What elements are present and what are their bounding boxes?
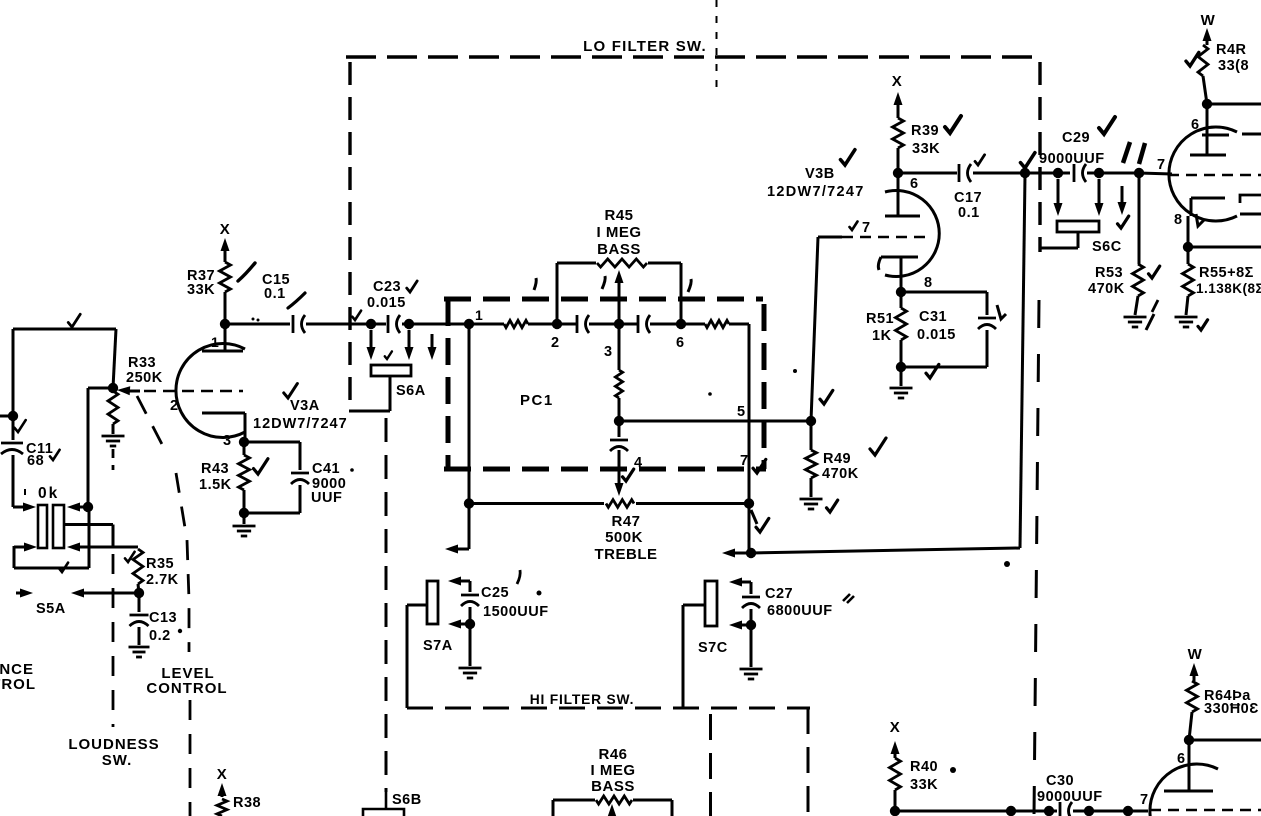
dotted leader line at top <box>716 0 718 92</box>
switch S6A arrows <box>367 330 437 360</box>
V3A grid dashes pin 2 <box>144 391 243 414</box>
resistor R55 <box>1183 247 1194 315</box>
svg-text:S6A: S6A <box>396 383 426 399</box>
check mark C17 <box>975 155 985 165</box>
ground R49 <box>800 499 838 512</box>
switch S6C arrows <box>1054 179 1127 216</box>
label R33 <box>126 355 163 386</box>
label S7C <box>698 640 728 656</box>
dashed linkage loudness sw <box>112 449 115 727</box>
wire plate bottom-right <box>1189 739 1261 742</box>
S5A outer bracket <box>14 508 89 568</box>
capacitor C31 <box>901 292 996 367</box>
svg-text:R33: R33 <box>128 355 156 371</box>
svg-text:8: 8 <box>1174 212 1183 228</box>
check mark pin4 <box>623 469 634 481</box>
check mark top-left wire <box>68 314 80 327</box>
switch S5A bar 2 <box>53 505 64 548</box>
dashed box LO FILTER SW top edge <box>346 55 1040 58</box>
switch S6A <box>349 365 411 411</box>
svg-text:I MEG: I MEG <box>590 762 635 779</box>
svg-text:R46: R46 <box>598 746 627 763</box>
svg-text:S5A: S5A <box>36 601 66 617</box>
PC1 capacitor 3-4 <box>610 421 643 471</box>
svg-text:C31: C31 <box>919 309 947 325</box>
svg-text:R4R: R4R <box>1216 42 1247 58</box>
check mark C15 <box>252 293 306 322</box>
capacitor C25 <box>448 577 479 630</box>
check mark R37 <box>238 263 255 281</box>
svg-text:7: 7 <box>740 453 749 469</box>
V4A plate pin 6 <box>1190 104 1226 155</box>
svg-text:C25: C25 <box>481 585 509 601</box>
capacitor C11 <box>1 416 53 503</box>
R46 wiper arrow <box>608 804 617 816</box>
label R37 <box>187 268 215 298</box>
V4A cathode pin 8 <box>1174 198 1225 247</box>
svg-text:2: 2 <box>551 335 560 351</box>
resistor R49 <box>806 421 817 497</box>
svg-text:7: 7 <box>1140 792 1149 808</box>
svg-text:1: 1 <box>211 334 219 350</box>
V3B plate pin 6 <box>885 168 920 216</box>
label R55 <box>1196 265 1261 296</box>
V3A plate pin 1 <box>202 324 243 351</box>
wire bottom right run <box>890 806 1148 816</box>
potentiometer R45 <box>557 259 681 324</box>
label R64 <box>1204 688 1259 717</box>
resistor R39 with X arrow <box>892 73 904 173</box>
svg-text:33K: 33K <box>910 777 938 793</box>
label C27 <box>765 586 833 619</box>
check mark S5A <box>59 563 68 572</box>
label S5A <box>36 601 66 617</box>
resistor R40 with X arrow <box>890 719 901 811</box>
svg-text:I MEG: I MEG <box>596 224 641 241</box>
svg-text:X: X <box>892 73 903 90</box>
check mark near row5 node <box>820 390 833 404</box>
wire into S5A bar1 <box>13 503 36 512</box>
svg-text:BASS: BASS <box>597 241 641 258</box>
svg-text:33K: 33K <box>187 282 215 298</box>
svg-text:W: W <box>1201 12 1216 29</box>
svg-text:S7C: S7C <box>698 640 728 656</box>
svg-text:R47: R47 <box>611 513 640 530</box>
label V3A <box>253 398 348 432</box>
PC1 capacitor a <box>577 315 638 333</box>
svg-text:C30: C30 <box>1046 773 1074 789</box>
svg-text:4: 4 <box>634 455 643 471</box>
capacitor C17 <box>898 164 1025 221</box>
svg-text:C29: C29 <box>1062 130 1090 146</box>
wiper arrow R33 (grid wire) <box>117 386 140 395</box>
label R51 <box>866 311 894 344</box>
svg-text:7: 7 <box>862 220 871 236</box>
wire plate top-right <box>1202 99 1261 109</box>
svg-text:TROL: TROL <box>0 676 36 693</box>
label C41 <box>311 461 354 506</box>
ground R51 <box>890 367 913 398</box>
dashed linkage level control <box>137 396 190 816</box>
svg-text:S7A: S7A <box>423 638 453 654</box>
svg-text:TREBLE: TREBLE <box>595 546 658 563</box>
stray dots <box>537 369 1011 773</box>
label R49 <box>822 451 859 482</box>
capacitor C15 <box>262 272 305 333</box>
switch S6B <box>363 792 422 816</box>
capacitor C27 <box>729 578 760 631</box>
label S7A <box>423 638 453 654</box>
label C25 <box>481 585 549 620</box>
check mark R39 <box>945 116 961 133</box>
svg-text:PC1: PC1 <box>520 392 554 409</box>
svg-text:R38: R38 <box>233 795 261 811</box>
S5A inner row A <box>64 525 113 548</box>
V4B plate pin 6 <box>1164 735 1213 791</box>
PC1 series resistor a <box>469 320 577 327</box>
wire V3B pin7 to row5 <box>806 237 842 426</box>
label LEVEL CONTROL <box>146 665 227 697</box>
main wire left section <box>220 319 469 329</box>
R47 wiper arrow <box>615 450 624 496</box>
check marks near pin7 <box>751 459 769 532</box>
ground C13 <box>129 647 150 657</box>
S5A inner row B <box>67 543 138 552</box>
check mark V3A <box>284 384 298 398</box>
main wire right section <box>1020 168 1172 178</box>
svg-text:7: 7 <box>1157 157 1166 173</box>
ground R33 <box>102 436 125 446</box>
svg-text:68: 68 <box>27 453 44 469</box>
switch S5A bar 1 <box>38 505 47 548</box>
resistor R37 with X arrow <box>220 221 231 324</box>
svg-text:C27: C27 <box>765 586 793 602</box>
pen strokes near pin 7 <box>1123 142 1145 164</box>
resistor R48 with W arrow <box>1198 12 1216 104</box>
svg-text:6: 6 <box>1177 751 1186 767</box>
label pin 7 bottom <box>1140 792 1149 808</box>
check mark V3B <box>841 150 855 165</box>
svg-text:X: X <box>220 221 231 238</box>
label R39 <box>911 123 940 157</box>
PC1 resistor 3-5 <box>615 324 622 421</box>
svg-text:470K: 470K <box>1088 281 1125 297</box>
svg-text:W: W <box>1188 646 1203 663</box>
label R43 <box>199 461 232 493</box>
label V3B <box>767 166 865 200</box>
potentiometer R46 <box>553 796 672 816</box>
svg-text:6: 6 <box>676 335 685 351</box>
svg-text:HI FILTER SW.: HI FILTER SW. <box>530 692 634 707</box>
resistor R43 <box>239 437 250 518</box>
svg-text:SW.: SW. <box>102 752 133 769</box>
check mark at node <box>1021 153 1035 168</box>
check mark R48 <box>1186 52 1199 66</box>
dashed box HI FILTER SW <box>407 708 810 816</box>
resistor R51 <box>896 287 907 372</box>
S5A wire arrows row1 <box>67 503 88 512</box>
tube V3A envelope <box>176 344 245 438</box>
PC1 pin 2 node <box>551 319 562 351</box>
svg-text:R49: R49 <box>823 451 851 467</box>
wire R33 wiper to S5A <box>83 388 113 512</box>
svg-text:R35: R35 <box>146 556 174 572</box>
svg-text:2.7K: 2.7K <box>146 572 179 588</box>
V3B grid pin 7 <box>842 220 928 237</box>
label R46 <box>590 746 635 795</box>
capacitor C41 <box>244 442 309 513</box>
svg-text:UUF: UUF <box>311 490 342 506</box>
svg-text:1: 1 <box>475 307 483 323</box>
svg-text:LOUDNESS: LOUDNESS <box>68 736 159 753</box>
svg-text:8: 8 <box>924 275 933 291</box>
switch S7C <box>683 581 717 708</box>
svg-text:0.1: 0.1 <box>264 286 286 302</box>
svg-text:V3A: V3A <box>290 398 320 414</box>
wire feedback bottom run <box>722 175 1025 558</box>
check mark C23 <box>352 281 417 320</box>
svg-text:BASS: BASS <box>591 778 635 795</box>
ground R53 <box>1124 317 1147 327</box>
dashed box LO FILTER SW left edge <box>348 62 351 404</box>
label BALANCE CONTROL (cut) <box>0 661 36 693</box>
svg-text:470K: 470K <box>822 466 859 482</box>
svg-text:0.015: 0.015 <box>917 327 956 343</box>
svg-text:5: 5 <box>737 404 746 420</box>
wire vertical PC1 right <box>748 324 751 553</box>
check mark C25 <box>517 570 520 584</box>
dashed linkage lo filter (x=386) <box>385 418 388 809</box>
svg-text:C23: C23 <box>373 279 401 295</box>
wire pin1 branch arrow <box>445 504 469 554</box>
tube V4A envelope <box>1169 127 1237 221</box>
label C31 <box>917 309 956 343</box>
label R47 <box>595 513 658 563</box>
label R40 <box>910 759 938 793</box>
resistor R38 and X arrow <box>217 766 261 816</box>
tube V3B envelope <box>885 191 939 277</box>
capacitor C30 <box>1037 773 1103 816</box>
resistor R64 with W arrow <box>1187 646 1203 740</box>
svg-text:R53: R53 <box>1095 265 1123 281</box>
svg-text:33K: 33K <box>912 141 940 157</box>
switch S6C <box>1041 221 1099 248</box>
V4B grid dashes <box>1150 809 1261 812</box>
label LO FILTER SW. <box>583 38 707 55</box>
label S6A <box>385 351 426 399</box>
svg-text:6800UUF: 6800UUF <box>767 603 833 619</box>
capacitor C29 <box>1039 130 1105 182</box>
resistor R35 <box>133 549 179 598</box>
svg-text:1.138K(8Σ: 1.138K(8Σ <box>1196 281 1261 296</box>
PC1 pin 6 node <box>676 319 686 351</box>
PC1 pin 1 <box>464 307 483 329</box>
ground C25 <box>459 624 482 678</box>
V3A cathode pin 3 <box>202 413 245 449</box>
check mark C27 <box>843 594 854 603</box>
svg-text:1.5K: 1.5K <box>199 477 232 493</box>
label R48 <box>1216 42 1249 74</box>
dashed box PC1 <box>444 299 766 469</box>
check mark R49 <box>870 438 886 455</box>
resistor R53 <box>1133 173 1144 315</box>
check marks C31 <box>926 305 1006 378</box>
V4A grid pin 7 dashes <box>1168 174 1261 177</box>
PC1 capacitor b <box>638 315 650 333</box>
label S6C <box>1092 216 1129 255</box>
potentiometer R47 <box>464 498 754 508</box>
svg-text:R40: R40 <box>910 759 938 775</box>
svg-text:0.015: 0.015 <box>367 295 406 311</box>
V4A right structures <box>1240 195 1261 214</box>
svg-text:6: 6 <box>910 176 919 192</box>
dashed box LO FILTER SW right edge <box>1034 62 1040 816</box>
switch S7A <box>407 581 438 708</box>
label HI FILTER SW. <box>530 692 634 707</box>
check mark pin8 <box>1196 214 1204 226</box>
svg-text:12DW7/7247: 12DW7/7247 <box>253 416 348 432</box>
svg-text:33(8: 33(8 <box>1218 58 1249 74</box>
label pin 7 right <box>1157 157 1166 173</box>
PC1 row 5 wire <box>614 404 813 426</box>
svg-text:500K: 500K <box>605 529 643 546</box>
check mark C29 <box>1099 117 1115 134</box>
capacitor C23 <box>367 279 406 333</box>
svg-text:X: X <box>217 766 228 783</box>
svg-text:R39: R39 <box>911 123 939 139</box>
svg-text:X: X <box>890 719 901 736</box>
label LOUDNESS SW. <box>68 736 159 769</box>
tube V4B envelope <box>1150 764 1218 816</box>
svg-text:LO FILTER SW.: LO FILTER SW. <box>583 38 707 55</box>
wire PC1 pin1 down <box>468 324 471 504</box>
PC1 series resistor b <box>650 320 749 327</box>
svg-text:0.1: 0.1 <box>958 205 980 221</box>
potentiometer R33 <box>108 329 118 434</box>
svg-text:R45: R45 <box>604 207 633 224</box>
svg-text:R55+8Σ: R55+8Σ <box>1199 265 1254 281</box>
ground V3A cathode <box>233 513 256 536</box>
label R45 <box>596 207 641 258</box>
svg-text:1500UUF: 1500UUF <box>483 604 549 620</box>
svg-text:R51: R51 <box>866 311 894 327</box>
svg-text:S6B: S6B <box>392 792 422 808</box>
wire cathode right <box>1183 242 1261 252</box>
svg-text:6: 6 <box>1191 117 1200 133</box>
V3B cathode pin 8 <box>878 257 932 292</box>
wire C11 top loop <box>0 329 116 421</box>
PC1 pin 7 label <box>740 453 749 469</box>
capacitor C13 <box>130 593 183 645</box>
check marks R53 <box>1146 266 1160 330</box>
svg-text:0k: 0k <box>38 485 59 502</box>
label R53 <box>1088 265 1125 297</box>
svg-text:250K: 250K <box>126 370 163 386</box>
label PC1 <box>520 392 554 409</box>
svg-text:2: 2 <box>170 398 179 414</box>
svg-text:R43: R43 <box>201 461 229 477</box>
check mark R43 <box>254 459 268 474</box>
svg-text:330Ħ0Ɛ: 330Ħ0Ɛ <box>1204 701 1259 717</box>
svg-text:V3B: V3B <box>805 166 835 182</box>
svg-text:3: 3 <box>604 344 613 360</box>
V4A upper electrode <box>1202 134 1261 135</box>
ground R55 <box>1175 317 1208 330</box>
svg-text:1K: 1K <box>872 328 892 344</box>
svg-text:C13: C13 <box>149 610 177 626</box>
svg-text:9000UUF: 9000UUF <box>1039 151 1105 167</box>
check mark C11 <box>15 420 60 460</box>
PC1 pin 3 node <box>604 319 624 360</box>
check mark R35 <box>125 552 135 562</box>
S5A lower arrows <box>16 589 139 598</box>
svg-text:9000UUF: 9000UUF <box>1037 789 1103 805</box>
svg-text:CONTROL: CONTROL <box>146 680 227 697</box>
svg-text:12DW7/7247: 12DW7/7247 <box>767 184 865 200</box>
label Ok <box>25 485 59 502</box>
check marks above PC1 <box>534 276 691 292</box>
svg-text:0.2: 0.2 <box>149 628 171 644</box>
svg-text:C41: C41 <box>312 461 340 477</box>
svg-text:3: 3 <box>223 433 232 449</box>
svg-text:S6C: S6C <box>1092 239 1122 255</box>
svg-text:C17: C17 <box>954 190 982 206</box>
ground C27 <box>740 625 763 679</box>
R45 wiper arrow <box>615 270 624 324</box>
